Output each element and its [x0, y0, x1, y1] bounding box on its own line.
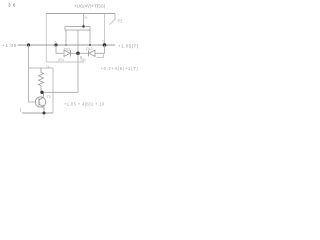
svg-text:1(6): 1(6)	[80, 58, 86, 62]
junction dot left bus	[27, 43, 30, 46]
small dot pot right leg	[89, 44, 91, 46]
wire D12 to bus	[95, 45, 105, 53]
wire bottom rail	[22, 112, 53, 114]
svg-text:D12: D12	[86, 47, 92, 51]
pot tap dot	[82, 25, 85, 28]
wire main bus	[18, 44, 116, 46]
wire node B down	[42, 53, 79, 92]
resistor R1	[39, 68, 44, 92]
wire x53 vertical	[52, 68, 54, 113]
transistor T1	[35, 97, 45, 107]
svg-text:a: a	[55, 40, 57, 44]
svg-text:+1.05: +1.05	[2, 43, 17, 48]
terminal hook P1	[110, 14, 116, 25]
svg-text:0: 0	[43, 115, 45, 119]
potentiometer body	[65, 27, 90, 30]
svg-text:1k: 1k	[46, 65, 50, 69]
junction dot resistor bottom	[40, 91, 43, 94]
pot top tap wire	[83, 14, 85, 27]
junction dot mid bus	[54, 43, 57, 46]
svg-text:+0.7+4(6)+1(T): +0.7+4(6)+1(T)	[101, 66, 139, 71]
svg-text:a: a	[85, 15, 88, 20]
svg-text:+1.05(T): +1.05(T)	[118, 44, 139, 49]
mark left end rail	[20, 108, 22, 112]
svg-text:+1.05 + 4(6)1 + 10: +1.05 + 4(6)1 + 10	[64, 102, 105, 107]
svg-text:+UC(4V)+T(5S): +UC(4V)+T(5S)	[74, 4, 106, 9]
svg-text:P1: P1	[118, 19, 124, 24]
junction dot emitter rail	[43, 112, 46, 115]
wire y62 horizontal	[46, 61, 84, 63]
small dot pot left leg	[65, 44, 67, 46]
svg-text:T1: T1	[47, 94, 52, 99]
wire y68 horizontal	[29, 67, 54, 69]
pot left leg	[65, 30, 67, 45]
pot right leg	[89, 30, 91, 45]
diode D12	[80, 52, 88, 54]
wire left riser (rail to y62)	[45, 14, 47, 63]
right small annotation line	[97, 54, 104, 58]
junction dot right bus	[103, 43, 107, 47]
wire left drop x28	[29, 45, 37, 102]
svg-text:(P)1: (P)1	[58, 58, 64, 62]
wire right riser x104	[104, 14, 106, 46]
svg-text:36: 36	[8, 3, 16, 8]
svg-text:D11: D11	[64, 48, 70, 52]
junction dot node B	[76, 52, 80, 56]
wire to diode D11	[56, 45, 63, 53]
pot center leg to node B	[77, 30, 79, 53]
svg-text:b: b	[103, 40, 105, 44]
wire top rail	[46, 13, 115, 15]
diode D11	[64, 50, 70, 56]
